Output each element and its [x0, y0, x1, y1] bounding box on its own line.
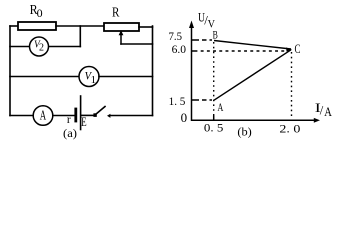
wire V2 branch right	[49, 46, 81, 48]
dotted vertical at 2.0	[291, 52, 293, 119]
wire slider to right vertical	[121, 43, 153, 45]
svg-text:R: R	[112, 6, 120, 21]
svg-text:B: B	[213, 30, 218, 42]
svg-text:0: 0	[181, 110, 188, 125]
svg-text:C: C	[295, 41, 301, 56]
svg-text:2: 2	[39, 42, 44, 53]
tick 7.5	[192, 39, 195, 41]
svg-text:2. 0: 2. 0	[279, 122, 300, 136]
rheostat slider stem	[120, 34, 122, 44]
wire V2 branch left	[10, 46, 30, 48]
wire battery to switch	[81, 114, 93, 116]
voltmeter V1 circle	[79, 67, 99, 87]
y-axis	[191, 26, 193, 121]
svg-text:/: /	[320, 104, 324, 118]
dashed line 6.0 level to C	[195, 50, 286, 52]
dashed line 1.5 level	[195, 99, 213, 101]
battery negative plate (short thick)	[74, 109, 77, 121]
wire switch to right	[110, 115, 153, 117]
svg-text:(b): (b)	[237, 127, 252, 139]
battery positive plate (long thin) E	[80, 96, 82, 130]
wire right vertical	[152, 26, 154, 116]
y-axis arrowhead	[189, 21, 194, 29]
wire bottom left	[10, 115, 33, 117]
wire V1 left	[10, 76, 79, 78]
svg-text:0: 0	[37, 8, 43, 20]
svg-text:A: A	[324, 105, 332, 119]
wire left vertical	[9, 26, 11, 116]
x-axis	[192, 119, 315, 121]
dotted vertical at 0.5	[213, 42, 215, 119]
svg-text:E: E	[81, 114, 86, 129]
svg-text:A: A	[40, 108, 47, 123]
resistor R0	[18, 22, 56, 30]
switch blade	[96, 107, 106, 115]
line A to C	[214, 50, 291, 100]
switch pivot dot	[93, 113, 96, 117]
graph axes	[192, 26, 315, 121]
svg-text:1: 1	[91, 74, 97, 86]
ammeter A circle	[33, 106, 53, 126]
svg-text:6.0: 6.0	[172, 42, 186, 56]
arrowhead at C (end of 6.0 dashed line)	[286, 48, 292, 52]
resistor R (rheostat body)	[104, 23, 139, 31]
svg-text:A: A	[217, 100, 223, 114]
tick 6.0	[192, 50, 195, 52]
svg-text:0. 5: 0. 5	[204, 121, 223, 135]
wire A to battery	[53, 115, 75, 117]
line B to C	[214, 41, 291, 50]
wire V1 right	[99, 76, 153, 78]
voltmeter V2 circle	[30, 37, 49, 56]
svg-text:1. 5: 1. 5	[169, 94, 186, 108]
wire top-left horizontal	[10, 25, 18, 27]
tick 1.5	[192, 99, 195, 101]
tick 0.5	[213, 116, 215, 120]
svg-text:7.5: 7.5	[169, 29, 183, 43]
rheostat slider arrowhead	[119, 30, 124, 35]
switch contact triangle	[107, 114, 110, 118]
wire R right to corner	[139, 26, 153, 28]
wire junction vertical to V2 branch	[79, 26, 81, 47]
dashed line 7.5 level	[195, 39, 213, 41]
x-axis arrowhead	[314, 118, 320, 123]
svg-text:r: r	[67, 114, 71, 126]
svg-text:(a): (a)	[63, 126, 77, 140]
wire R0 to R	[56, 25, 104, 27]
